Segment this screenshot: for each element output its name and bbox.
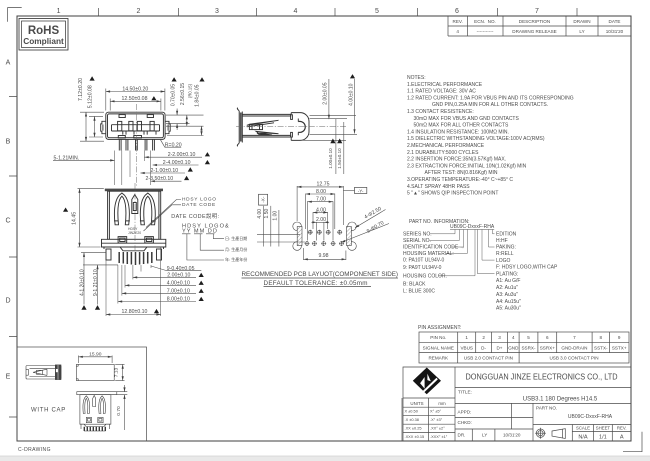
svg-text:0: PA10T UL94V-0: 0: PA10T UL94V-0 bbox=[403, 258, 444, 264]
leader 4-2.50 bbox=[355, 210, 386, 228]
svg-text:2.1 DURABILITY:5000 CYCLES: 2.1 DURABILITY:5000 CYCLES bbox=[407, 150, 479, 156]
svg-text:GND: GND bbox=[508, 345, 519, 350]
svg-text:USB 3.0 CONTACT PIN: USB 3.0 CONTACT PIN bbox=[549, 356, 598, 361]
svg-text:PIN No.: PIN No. bbox=[430, 335, 446, 340]
svg-text:4.00: 4.00 bbox=[257, 209, 263, 219]
tongue with contacts bbox=[112, 125, 160, 131]
svg-text:.XX ±0.25: .XX ±0.25 bbox=[405, 426, 422, 431]
svg-text:DRAWN: DRAWN bbox=[573, 19, 590, 24]
svg-text:SCALE: SCALE bbox=[576, 426, 590, 431]
svg-text:14.50±0.20: 14.50±0.20 bbox=[122, 86, 148, 92]
svg-text:Compliant: Compliant bbox=[23, 36, 64, 46]
center keyhole bbox=[132, 195, 138, 214]
svg-text:GND-DRAIN: GND-DRAIN bbox=[561, 345, 587, 350]
svg-text:NOTES:: NOTES: bbox=[407, 75, 426, 81]
bottom notched edge bbox=[104, 247, 164, 251]
leg pitch extension lines below bbox=[106, 247, 161, 316]
notes text block bbox=[407, 75, 574, 197]
dimension 2-1.00±0.10 bbox=[140, 172, 185, 174]
svg-text:WITH CAP: WITH CAP bbox=[31, 408, 66, 414]
svg-text:.XXX ±0.15: .XXX ±0.15 bbox=[405, 434, 425, 439]
svg-text:2.56±0.15: 2.56±0.15 bbox=[180, 83, 186, 105]
svg-text:1.4 INSULATION RESISTANCE: 100: 1.4 INSULATION RESISTANCE: 100MΩ MIN. bbox=[407, 129, 509, 135]
svg-text:DRAWING RELEASE: DRAWING RELEASE bbox=[512, 29, 557, 34]
svg-text:4: 4 bbox=[512, 335, 515, 340]
dimension 7.00±0.10 bbox=[122, 292, 196, 294]
units tolerance table bbox=[405, 401, 448, 439]
svg-text:1.1 RATED VOLTAGE: 30V AC: 1.1 RATED VOLTAGE: 30V AC bbox=[407, 89, 476, 95]
svg-text:3: 3 bbox=[215, 8, 219, 15]
svg-text:9-Φ0.70: 9-Φ0.70 bbox=[366, 220, 385, 235]
svg-text:DESCRIPTION: DESCRIPTION bbox=[519, 19, 550, 24]
dimension 12.80±0.10 bbox=[106, 314, 161, 316]
svg-text:USB3.1 180 Degrees H14.5: USB3.1 180 Degrees H14.5 bbox=[523, 397, 598, 403]
svg-text:2.00±0.05: 2.00±0.05 bbox=[322, 82, 328, 104]
latch holes bottom bbox=[118, 136, 125, 138]
contact legs bbox=[119, 139, 154, 150]
dimension 14.50±0.20 bbox=[106, 89, 165, 111]
svg-text:5: 5 bbox=[527, 335, 530, 340]
front edge bar bbox=[105, 189, 163, 192]
svg-text:-Y-: -Y- bbox=[358, 188, 364, 193]
shell hole edges bbox=[291, 115, 293, 120]
svg-text:3: 3 bbox=[498, 335, 501, 340]
svg-text:4-1.20±0.10: 4-1.20±0.10 bbox=[80, 269, 86, 296]
dimension 9.98 bbox=[304, 248, 346, 260]
svg-text:2-4.00±0.10: 2-4.00±0.10 bbox=[163, 160, 191, 166]
svg-text:5: 5 bbox=[375, 8, 379, 15]
svg-text:SSRX-: SSRX- bbox=[521, 345, 536, 350]
svg-text:LOGO: LOGO bbox=[496, 258, 511, 264]
svg-text:ECN. NO.: ECN. NO. bbox=[474, 19, 496, 24]
svg-text:UB09C-DxxxF-RHA: UB09C-DxxxF-RHA bbox=[568, 414, 613, 420]
svg-text:E: E bbox=[6, 374, 11, 381]
svg-text:HOUSING COLOR.: HOUSING COLOR. bbox=[403, 274, 447, 280]
svg-text:2-2.00±0.10: 2-2.00±0.10 bbox=[168, 152, 196, 158]
part number breakdown leader lines bbox=[430, 230, 495, 276]
revision table bbox=[448, 16, 631, 36]
svg-text:6: 6 bbox=[546, 335, 549, 340]
corner mark top-left bbox=[8, 8, 22, 22]
dimension 7.13 (rotated) bbox=[115, 364, 124, 380]
svg-text:N/A: N/A bbox=[578, 435, 588, 441]
svg-text:X° ±5°: X° ±5° bbox=[430, 409, 442, 414]
svg-text:8: 8 bbox=[600, 335, 603, 340]
latch holes top bbox=[119, 115, 125, 118]
dimension 12.50±0.08 bbox=[110, 99, 161, 111]
svg-text:A5: Au30u": A5: Au30u" bbox=[496, 306, 521, 312]
svg-text:1.00±0.10: 1.00±0.10 bbox=[328, 148, 333, 169]
bottom gray strip bbox=[0, 456, 650, 461]
svg-text:R:RELL: R:RELL bbox=[496, 251, 514, 257]
pin position dims below side view bbox=[336, 119, 344, 174]
WITH CAP detail box bbox=[17, 347, 147, 441]
svg-text:DEFAULT TOLERANCE: ±0.05mm: DEFAULT TOLERANCE: ±0.05mm bbox=[264, 280, 368, 287]
zone ticks left edge bbox=[9, 97, 17, 417]
body bbox=[80, 395, 111, 425]
dimension 8.00 bbox=[306, 194, 335, 230]
claws bbox=[83, 396, 90, 414]
wide/narrow leg row extension lines bbox=[81, 253, 118, 265]
svg-text:A3: Au3u": A3: Au3u" bbox=[496, 292, 518, 298]
svg-text:1.5 DIELECTRIC WITHSTANDING VO: 1.5 DIELECTRIC WITHSTANDING VOLTAGE:100V… bbox=[407, 136, 545, 142]
svg-text:UNITS: UNITS bbox=[410, 401, 423, 406]
front view of USB-A receptacle bbox=[101, 112, 171, 150]
svg-text:5 "▲" SHOWS QIP INSPECTION POI: 5 "▲" SHOWS QIP INSPECTION POINT bbox=[407, 191, 498, 197]
svg-text:12.75: 12.75 bbox=[317, 182, 330, 188]
svg-text:HDSY LOGO: HDSY LOGO bbox=[182, 197, 217, 203]
svg-text:(R0.15): (R0.15) bbox=[187, 83, 192, 98]
capped top view bbox=[76, 364, 114, 380]
svg-text:5-1.21MIN.: 5-1.21MIN. bbox=[54, 155, 80, 161]
svg-text:PART NO.: PART NO. bbox=[536, 406, 557, 411]
svg-text:4-Φ2.50: 4-Φ2.50 bbox=[363, 206, 382, 221]
svg-text:4.00±0.10: 4.00±0.10 bbox=[167, 280, 190, 286]
svg-text:IDENTIFICATION CODE →: IDENTIFICATION CODE → bbox=[403, 245, 465, 251]
square holes bbox=[118, 237, 127, 243]
svg-text:7.13: 7.13 bbox=[114, 367, 120, 377]
svg-text:-X-: -X- bbox=[261, 196, 266, 203]
svg-text:14.45: 14.45 bbox=[72, 212, 78, 225]
svg-text:DATE CODE說明:: DATE CODE說明: bbox=[171, 212, 219, 220]
svg-text:7.00: 7.00 bbox=[316, 197, 326, 203]
svg-text:.XX° ±2°: .XX° ±2° bbox=[430, 426, 445, 431]
svg-text:2: 2 bbox=[137, 8, 141, 15]
retention claw right bbox=[140, 193, 156, 225]
centerline rear view bbox=[134, 183, 136, 250]
mounting face plate bbox=[239, 111, 242, 143]
retention claw left bbox=[114, 193, 130, 225]
svg-text:DATE CODE: DATE CODE bbox=[182, 202, 216, 208]
svg-text:10/31'20: 10/31'20 bbox=[606, 29, 624, 34]
svg-text:D: D bbox=[5, 298, 10, 305]
svg-text:0.70: 0.70 bbox=[116, 406, 122, 416]
svg-text:9: 9 bbox=[618, 335, 621, 340]
rear (top) view of receptacle with logo stamp bbox=[105, 189, 163, 240]
svg-text:AFTER TEST: 8N(0.816Kgf) MIN: AFTER TEST: 8N(0.816Kgf) MIN bbox=[425, 170, 498, 176]
svg-text:SERIAL NO.: SERIAL NO. bbox=[403, 238, 431, 244]
svg-text:4.SALT SPRAY 48HR PASS: 4.SALT SPRAY 48HR PASS bbox=[407, 184, 470, 190]
svg-text:R=0.20: R=0.20 bbox=[165, 142, 182, 148]
svg-text:C-DRAWING: C-DRAWING bbox=[18, 447, 51, 453]
shell top and bottom bbox=[242, 114, 291, 137]
capped side view bbox=[26, 365, 61, 380]
svg-text:2-1.00±0.10: 2-1.00±0.10 bbox=[151, 168, 179, 174]
shell legs wide bbox=[106, 249, 111, 260]
svg-text:REV.: REV. bbox=[453, 19, 463, 24]
pin pads top row bbox=[305, 230, 345, 246]
svg-text:GND PIN,0.25A MIN FOR ALL OTHE: GND PIN,0.25A MIN FOR ALL OTHER CONTACTS… bbox=[432, 102, 548, 108]
svg-text:SERIES NO.: SERIES NO. bbox=[403, 232, 432, 238]
svg-text:TITLE:: TITLE: bbox=[458, 390, 472, 395]
company logo (black diamond) bbox=[413, 368, 441, 395]
svg-text:12.50±0.08: 12.50±0.08 bbox=[122, 96, 148, 102]
svg-text:7.00±0.10: 7.00±0.10 bbox=[167, 288, 190, 294]
mounting holes (4-2.50) bbox=[293, 222, 357, 250]
svg-text:1: 1 bbox=[57, 8, 61, 15]
svg-text:1.84±0.05: 1.84±0.05 bbox=[194, 84, 200, 106]
svg-text:PIN ASSIGNMENT:: PIN ASSIGNMENT: bbox=[418, 325, 461, 331]
svg-text:7.12±0.20: 7.12±0.20 bbox=[78, 78, 84, 101]
cap rim bbox=[77, 392, 117, 395]
svg-text:月: 生產月份: 月: 生產月份 bbox=[225, 246, 247, 252]
svg-text:9-1.21±0.10: 9-1.21±0.10 bbox=[93, 269, 99, 296]
svg-text:JINZE20: JINZE20 bbox=[128, 231, 141, 235]
dimension 4.00±0.10 bbox=[125, 284, 196, 286]
svg-text:A4: Au15u": A4: Au15u" bbox=[496, 299, 521, 305]
dimension 0.70 (rotated) bbox=[111, 385, 127, 430]
square holes bbox=[86, 417, 91, 422]
left offset dims 4.00 / 1.50 / 1.00 bbox=[257, 206, 305, 247]
svg-text:RoHS: RoHS bbox=[28, 25, 60, 37]
svg-text:1: 1 bbox=[465, 335, 468, 340]
inner contact blades bbox=[247, 120, 279, 135]
svg-text:1.50±0.10: 1.50±0.10 bbox=[337, 148, 342, 169]
svg-text:SSRX+: SSRX+ bbox=[540, 345, 556, 350]
svg-text:LY: LY bbox=[579, 29, 584, 34]
svg-text:30mΩ MAX FOR VBUS AND GND CONT: 30mΩ MAX FOR VBUS AND GND CONTACTS bbox=[414, 116, 520, 122]
svg-text:A: A bbox=[6, 60, 11, 67]
inner curved spring bbox=[298, 121, 305, 132]
dimension 12.75 bbox=[297, 186, 343, 225]
svg-text:-----------: ----------- bbox=[477, 29, 494, 34]
capped front view bbox=[77, 392, 117, 431]
bottom flange bbox=[102, 239, 166, 247]
svg-text:50mΩ MAX FOR ALL OTHER CONTACT: 50mΩ MAX FOR ALL OTHER CONTACTS bbox=[414, 123, 510, 129]
svg-text:REV.: REV. bbox=[617, 426, 627, 431]
svg-text:15.90: 15.90 bbox=[89, 351, 102, 357]
plated slots bbox=[297, 227, 302, 246]
svg-text:D-: D- bbox=[481, 345, 486, 350]
svg-text:年: 生產年份: 年: 生產年份 bbox=[225, 256, 247, 262]
keyhole bbox=[93, 395, 96, 406]
mounting ear left bbox=[101, 121, 106, 133]
svg-text:1/1: 1/1 bbox=[599, 435, 607, 441]
svg-text:.X° ±3°: .X° ±3° bbox=[430, 417, 443, 422]
svg-text:3.OPERATING TEMPERATURE:-40° C: 3.OPERATING TEMPERATURE:-40° C~+85° C bbox=[407, 177, 513, 183]
leader HDSY LOGO / DATE CODE bbox=[144, 200, 182, 232]
svg-text:1.00: 1.00 bbox=[273, 211, 279, 221]
svg-text:4: 4 bbox=[294, 8, 298, 15]
svg-text:4: 4 bbox=[456, 29, 459, 34]
svg-text:8.00±0.10: 8.00±0.10 bbox=[167, 297, 190, 303]
third angle projection symbol bbox=[535, 428, 565, 439]
svg-text:.XXX° ±1°: .XXX° ±1° bbox=[430, 434, 448, 439]
svg-text:8.00: 8.00 bbox=[316, 189, 326, 195]
svg-text:5.12±0.08: 5.12±0.08 bbox=[87, 85, 93, 108]
svg-text:VBUS: VBUS bbox=[460, 345, 473, 350]
svg-text:1.3 CONTACT RESISTENCE:: 1.3 CONTACT RESISTENCE: bbox=[407, 109, 474, 115]
svg-text:EDITION: EDITION bbox=[496, 232, 517, 238]
svg-text:2: 2 bbox=[482, 335, 485, 340]
dimension 2.00 bbox=[311, 222, 329, 241]
svg-text:REMARK: REMARK bbox=[428, 356, 449, 361]
zone ticks top edge bbox=[99, 8, 577, 16]
svg-text:4.00±0.10: 4.00±0.10 bbox=[348, 83, 354, 105]
svg-text:UB09C-DxxxF-RHA: UB09C-DxxxF-RHA bbox=[450, 224, 495, 230]
svg-text:LY: LY bbox=[482, 433, 487, 438]
svg-text:PLATING:: PLATING: bbox=[496, 271, 518, 277]
side view of receptacle bbox=[237, 108, 309, 147]
leg extension lines below front view bbox=[115, 151, 151, 186]
svg-text:2-3.50±0.10: 2-3.50±0.10 bbox=[146, 176, 174, 182]
QIP triangle beside 12.50 bbox=[151, 96, 156, 100]
svg-text:SSTX-: SSTX- bbox=[594, 345, 608, 350]
svg-text:DATE: DATE bbox=[609, 19, 621, 24]
bottom notch edge & legs bbox=[80, 424, 111, 426]
svg-text:1.50: 1.50 bbox=[264, 209, 270, 219]
corner mark bottom-right bbox=[623, 432, 642, 452]
datum -X- box bbox=[259, 194, 268, 205]
svg-text:C: C bbox=[5, 218, 10, 225]
svg-text:SIGNAL NAME: SIGNAL NAME bbox=[423, 345, 454, 350]
centerline side view bbox=[236, 126, 347, 128]
svg-text:9.98: 9.98 bbox=[318, 253, 328, 259]
svg-text:9: PA9T UL94V-0: 9: PA9T UL94V-0 bbox=[403, 265, 442, 271]
scale sheet rev bbox=[576, 426, 627, 431]
title block grid bbox=[402, 367, 631, 441]
dimension 2-3.50±0.10 bbox=[151, 180, 182, 182]
svg-text:2.00: 2.00 bbox=[316, 217, 326, 223]
body bbox=[108, 191, 161, 239]
svg-text:B: BLACK: B: BLACK bbox=[403, 282, 426, 288]
svg-text:1.ELECTRICAL PERFORMANCE: 1.ELECTRICAL PERFORMANCE bbox=[407, 82, 483, 88]
svg-text:4.00: 4.00 bbox=[316, 207, 326, 213]
svg-text:X ±0.50: X ±0.50 bbox=[405, 409, 419, 414]
svg-text:D+: D+ bbox=[496, 345, 502, 350]
svg-text:2.3 EXTRACTION FORCE:INITIAL 1: 2.3 EXTRACTION FORCE:INITIAL 10N(1.02Kgf… bbox=[407, 163, 527, 169]
svg-text:A2: Au1u": A2: Au1u" bbox=[496, 285, 518, 291]
svg-text:7: 7 bbox=[535, 8, 539, 15]
pin pads bottom row bbox=[305, 241, 345, 246]
leader 5-1.21MIN bbox=[53, 159, 115, 161]
RoHS compliant stamp bbox=[19, 19, 68, 51]
mounting ear right bbox=[165, 121, 170, 133]
svg-text:2.00±0.10: 2.00±0.10 bbox=[167, 273, 190, 279]
svg-text:7: 7 bbox=[573, 335, 576, 340]
dimension 2-2.00±0.10 bbox=[144, 156, 202, 158]
right side small vertical dimensions bbox=[166, 109, 204, 136]
svg-text:HOUSING MATERIAL:: HOUSING MATERIAL: bbox=[403, 251, 454, 257]
leader R=0.20 bbox=[161, 140, 182, 147]
dimension 15.90 bbox=[79, 356, 113, 364]
svg-text:.X ±0.38: .X ±0.38 bbox=[405, 417, 419, 422]
dimension 7.00 bbox=[308, 201, 334, 240]
svg-text:2.MECHANICAL PERFORMANCE: 2.MECHANICAL PERFORMANCE bbox=[407, 143, 485, 149]
dimension 2.00±0.10 bbox=[133, 276, 196, 278]
svg-text:USB 2.0 CONTACT PIN: USB 2.0 CONTACT PIN bbox=[464, 356, 513, 361]
centerline front view bbox=[135, 104, 137, 186]
svg-text:PAKING:: PAKING: bbox=[496, 245, 516, 251]
9 contact legs bbox=[119, 252, 152, 265]
svg-text:A: A bbox=[620, 435, 624, 441]
leader 9-0.40±0.05 bbox=[151, 266, 201, 271]
svg-text:6: 6 bbox=[455, 8, 459, 15]
svg-text:CHKD:: CHKD: bbox=[458, 420, 472, 425]
svg-text:2.2 INSERTION FORCE:35N(3.57Kg: 2.2 INSERTION FORCE:35N(3.57Kgf) MAX. bbox=[407, 157, 506, 163]
svg-text:B: B bbox=[6, 139, 11, 146]
svg-text:mm: mm bbox=[438, 401, 446, 406]
datum -Y- box bbox=[343, 189, 354, 191]
svg-text:A1: Au G/F: A1: Au G/F bbox=[496, 278, 520, 284]
svg-text:1.2 RATED CURRENT: 1.9A FOR VB: 1.2 RATED CURRENT: 1.9A FOR VBUS PIN AND… bbox=[407, 95, 574, 101]
svg-text:F: HDSY LOGO,WITH CAP: F: HDSY LOGO,WITH CAP bbox=[496, 265, 558, 271]
part number information block bbox=[403, 219, 558, 312]
svg-text:L: BLUE 300C: L: BLUE 300C bbox=[403, 289, 435, 295]
svg-text:日: 生產日期: 日: 生產日期 bbox=[225, 235, 247, 241]
svg-text:SHEET: SHEET bbox=[596, 426, 611, 431]
svg-text:DONGGUAN JINZE ELECTRONICS CO.: DONGGUAN JINZE ELECTRONICS CO., LTD bbox=[466, 373, 618, 382]
svg-text:10/31'20: 10/31'20 bbox=[503, 433, 521, 438]
svg-text:SSTX+: SSTX+ bbox=[612, 345, 627, 350]
dimension 4.00 bbox=[313, 212, 328, 229]
svg-text:H:HF: H:HF bbox=[496, 238, 508, 244]
approval cells bbox=[458, 410, 521, 438]
leader 9-0.70 bbox=[341, 224, 389, 243]
svg-text:0.70±0.05: 0.70±0.05 bbox=[171, 84, 177, 106]
svg-text:12.80±0.10: 12.80±0.10 bbox=[122, 309, 148, 315]
dimension 2-4.00±0.10 bbox=[153, 164, 199, 166]
svg-text:RECOMMENDED PCB LAYUOT(COMPONE: RECOMMENDED PCB LAYUOT(COMPONENET SIDE) bbox=[242, 271, 399, 278]
svg-text:9-0.40±0.05: 9-0.40±0.05 bbox=[167, 266, 195, 272]
shell right bend bbox=[291, 113, 309, 141]
QIP triangle above 5.12 column bbox=[90, 76, 95, 80]
svg-text:APPD:: APPD: bbox=[458, 410, 472, 415]
svg-text:DR.: DR. bbox=[458, 433, 466, 438]
dimension 8.00±0.10 bbox=[118, 301, 196, 303]
